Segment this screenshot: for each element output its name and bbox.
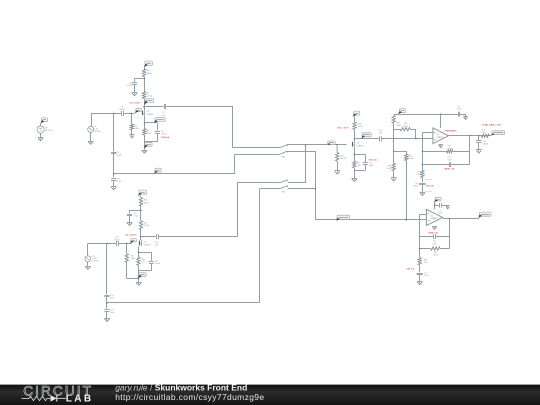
wire Q2 source (138, 246, 139, 257)
flag Sig_Out (491, 131, 505, 136)
wire R24 to ground (337, 161, 339, 171)
wire switch output to U2 (315, 219, 426, 220)
capacitor C4 (441, 106, 466, 117)
resistor R18 (137, 257, 146, 265)
wire R21 to ground (393, 171, 395, 178)
svg-text:4.7 µF: 4.7 µF (127, 85, 133, 87)
flag source-bottom stage1 (144, 142, 152, 149)
ground below stage2 (136, 282, 142, 285)
svg-text:180 Ω: 180 Ω (147, 73, 153, 75)
svg-text:680 pF: 680 pF (483, 143, 488, 145)
svg-text:R11: R11 (418, 171, 421, 173)
red label current C13 (426, 184, 434, 187)
svg-text:1 MΩ: 1 MΩ (131, 258, 136, 260)
svg-text:997 kHz: 997 kHz (94, 131, 100, 133)
wire bias R5 stem (131, 114, 133, 125)
capacitor C10 (111, 178, 121, 183)
ground below stage1 (142, 150, 148, 153)
svg-text:10 µF: 10 µF (110, 298, 114, 300)
capacitor C5 (162, 104, 166, 117)
flag U2 out (478, 212, 491, 218)
resistor R8 (143, 129, 152, 135)
wire U2 inv column (419, 237, 420, 258)
resistor R13 (353, 161, 362, 168)
svg-text:Vds = 4.7 V: Vds = 4.7 V (337, 126, 349, 129)
wire bias R24 stem (336, 145, 338, 153)
wire gate junction down stage2 (106, 244, 108, 295)
capacitor C9 (111, 152, 121, 157)
wire source rejoin stage2 (138, 263, 152, 282)
resistor R21 stem (393, 151, 395, 163)
wire SW2a right (288, 182, 306, 184)
flag VDD stage3 (353, 111, 360, 117)
wire R16 to R17 (140, 206, 141, 221)
wire R14 down (415, 129, 417, 139)
flag gate stage3 (328, 141, 336, 145)
resistor R10 (392, 115, 402, 127)
wire to SW1a contact (233, 147, 279, 149)
ground below V1 (88, 141, 94, 144)
wire node to SW1b corner (114, 173, 235, 175)
wire gate stage2 (88, 243, 132, 244)
wire corner up to SW2b (259, 189, 261, 303)
svg-text:1 kΩ: 1 kΩ (147, 133, 151, 135)
wire U1 feedback right (469, 136, 471, 165)
wire flag to R6 (144, 67, 146, 69)
svg-text:10 µF: 10 µF (110, 312, 114, 314)
wire SW1b riser down (315, 151, 316, 220)
red label Vd stage1 (130, 102, 142, 105)
resistor R23 (420, 247, 450, 257)
svg-text:R16: R16 (144, 200, 147, 202)
svg-text:R7: R7 (147, 93, 151, 95)
resistor R6 (142, 69, 152, 77)
footer url line (115, 392, 264, 402)
wire U1 supply (440, 114, 442, 128)
svg-text:SW1: SW1 (281, 157, 285, 159)
source V3 sine (85, 256, 99, 263)
wire corner down to SW1a (232, 107, 234, 148)
wire to SW2a contact (237, 182, 279, 184)
wire to SW2b contact (260, 188, 280, 190)
wire R22 to U2 input (406, 161, 408, 220)
svg-text:2.2 kΩ: 2.2 kΩ (147, 96, 153, 98)
flag VDD rail (398, 109, 406, 115)
wire source branch right stage2 (138, 252, 151, 261)
ground below C10 (111, 187, 117, 190)
wire to SW1b contact (235, 154, 279, 156)
svg-text:680 pF: 680 pF (413, 186, 418, 188)
wire source branch right (144, 123, 157, 131)
wire source rejoin (144, 133, 157, 149)
wire SW2a riser up (305, 144, 306, 183)
capacitor C15 (420, 234, 450, 246)
wire C2 to ground (419, 275, 421, 281)
wire U1 inverting column (422, 139, 423, 171)
resistor R16 (139, 198, 149, 206)
resistor R11 (416, 170, 424, 177)
red label total gain (482, 124, 502, 127)
wire R17 to drain (140, 230, 142, 241)
resistor R17 (139, 221, 149, 230)
svg-text:1 MΩ: 1 MΩ (135, 128, 140, 130)
wire flag to R16 (140, 196, 142, 198)
svg-text:Vd = 5.40 V: Vd = 5.40 V (125, 233, 137, 236)
node drain stage1 (143, 106, 144, 107)
ground C4 (463, 117, 468, 120)
wire U1 output (449, 135, 492, 136)
svg-text:U2: U2 (431, 215, 433, 217)
wire C12 to ground (129, 216, 131, 222)
wire drain stage2 to C11 (141, 236, 156, 238)
svg-text:2.2 kΩ: 2.2 kΩ (358, 126, 364, 128)
logo diode (51, 395, 66, 401)
wire C13 to ground (422, 185, 424, 192)
svg-text:C13: C13 (415, 183, 418, 185)
node drain stage2 (140, 236, 141, 237)
resistor R7 (142, 92, 152, 99)
svg-text:0.59 mA: 0.59 mA (161, 136, 169, 139)
svg-text:10 µF: 10 µF (433, 244, 437, 246)
ground below C21 (104, 319, 110, 322)
op-amp U1 (433, 128, 449, 144)
wire corner up to SW1b (234, 154, 236, 174)
wire V1 riser (91, 114, 93, 127)
flag mixer node (336, 215, 350, 221)
ground below V3 (85, 266, 91, 269)
svg-text:LSK489: LSK489 (357, 146, 363, 148)
ground below R21 (391, 178, 397, 182)
wire C20 to junction (106, 297, 107, 309)
flag VDD stage1 (144, 61, 153, 67)
wire source branch right stage3 (354, 154, 365, 162)
footer bar (0, 385, 540, 405)
switch SW2b (279, 186, 288, 194)
resistor R21 (387, 163, 396, 170)
resistor R24 (336, 153, 347, 161)
svg-text:0.1 µF: 0.1 µF (438, 213, 442, 215)
capacitor C22 (114, 237, 119, 246)
wire V3 riser (87, 244, 89, 256)
svg-text:0.59 mA: 0.59 mA (369, 158, 377, 161)
svg-text:LAB: LAB (66, 393, 94, 404)
wire R25 to drain (354, 130, 355, 142)
wire U2 supply (434, 202, 435, 210)
svg-text:R23: R23 (434, 252, 437, 254)
wire flag to R25 (354, 117, 356, 122)
wire C19 to ground (478, 143, 480, 150)
svg-text:10 µF: 10 µF (117, 181, 121, 183)
svg-text:180 Ω: 180 Ω (144, 202, 149, 204)
wire drain stage1 to C5 (144, 106, 164, 108)
red label GBW U1 (445, 129, 457, 132)
ground below C8 (132, 93, 138, 96)
svg-text:1 µF: 1 µF (155, 244, 158, 246)
wire C8 to ground (134, 84, 136, 92)
svg-text:10 µF: 10 µF (424, 275, 428, 277)
capacitor C19 (476, 141, 488, 146)
red label current U2 (406, 268, 414, 271)
flag node wire-b (154, 168, 161, 173)
svg-text:1 kΩ: 1 kΩ (424, 262, 428, 264)
resistor R22 (405, 154, 414, 161)
ground U1 (438, 145, 443, 148)
wire Q1 source (144, 116, 145, 129)
wire Q5 drain to C18 (355, 138, 379, 140)
svg-text:C3: C3 (439, 210, 441, 212)
wire U2 output (443, 218, 479, 219)
wire R15 return (127, 262, 139, 278)
wire bias to R22 (394, 151, 407, 154)
resistor R20 (418, 258, 428, 265)
svg-text:GAIN = 18: GAIN = 18 (444, 167, 455, 170)
wire SW1b right (287, 151, 315, 153)
capacitor C21 (104, 309, 114, 314)
ground below C2 (417, 282, 423, 285)
wire V3 to ground (87, 262, 89, 266)
svg-text:1 kΩ: 1 kΩ (482, 132, 486, 134)
wire gate stage3 (306, 144, 347, 145)
wire source rejoin stage3 (354, 165, 365, 178)
svg-text:R17: R17 (144, 223, 147, 225)
transistor Q1 (143, 109, 154, 116)
svg-text:R6: R6 (147, 70, 151, 72)
wire V1 to ground (90, 132, 92, 141)
capacitor C18 (378, 130, 381, 141)
flag gate stage1 (135, 108, 142, 113)
svg-text:GBW=40MHz: GBW=40MHz (445, 129, 457, 132)
svg-text:0.1 µF: 0.1 µF (456, 108, 461, 110)
switch SW2a (279, 180, 288, 183)
op-amp U2 (426, 209, 442, 225)
capacitor C19 stem (478, 136, 480, 141)
wire R20 to C2 (419, 265, 421, 273)
capacitor C13 (413, 183, 425, 188)
red label Vds stage3 (337, 126, 349, 129)
wire SW2b right (288, 188, 316, 190)
svg-text:Q5: Q5 (357, 143, 359, 145)
wire C5 to corner (166, 106, 233, 108)
logo LAB (66, 393, 94, 404)
transistor Q5 (353, 141, 364, 148)
svg-text:Q1: Q1 (147, 111, 149, 113)
flag VDD U2 (434, 197, 441, 202)
svg-text:C21: C21 (110, 309, 113, 311)
flag VDD stage2 (138, 190, 146, 196)
flag drain stage1 (144, 99, 154, 105)
svg-text:996 kHz: 996 kHz (93, 260, 99, 262)
svg-text:SW2: SW2 (281, 192, 285, 194)
svg-text:C14: C14 (448, 157, 451, 159)
ground below R5 (129, 135, 134, 138)
capacitor C14 (422, 157, 469, 167)
resistor R19 (481, 130, 489, 138)
svg-text:LSK489: LSK489 (147, 114, 153, 116)
capacitor C8 (127, 83, 138, 88)
red label current stage1 (161, 136, 169, 139)
svg-text:C2: C2 (424, 273, 426, 275)
svg-text:56 pF: 56 pF (448, 159, 452, 161)
svg-text:TOTAL GAIN = 1017: TOTAL GAIN = 1017 (482, 124, 502, 127)
capacitor C16 (149, 260, 160, 265)
voltage source V2 (37, 126, 53, 133)
wire R10 to main wire (393, 123, 395, 139)
svg-text:100 µF: 100 µF (155, 263, 160, 265)
wire SW1a to gate wire (287, 144, 305, 146)
svg-text:56 kΩ: 56 kΩ (409, 158, 414, 160)
svg-text:C17: C17 (369, 163, 372, 165)
svg-text:7.5 kΩ: 7.5 kΩ (416, 174, 422, 176)
wire U2 inverting (420, 214, 427, 236)
resistor R14 (394, 123, 416, 131)
resistor R5 (130, 124, 139, 130)
wire R5 to ground (131, 130, 133, 135)
svg-text:56 kΩ: 56 kΩ (396, 125, 401, 127)
svg-text:1 µF: 1 µF (162, 115, 165, 117)
capacitor C2 (417, 273, 429, 278)
capacitor C17 (363, 163, 374, 168)
svg-text:C4: C4 (458, 106, 460, 108)
svg-text:LSK489: LSK489 (144, 244, 150, 246)
resistor R12 (422, 146, 469, 153)
red label current stage3 (369, 158, 377, 161)
flag source stage1 (154, 118, 166, 123)
wire U2 feedback right (449, 219, 451, 249)
svg-text:C12: C12 (134, 213, 137, 215)
wire supply rail (394, 113, 442, 114)
svg-text:1 µF: 1 µF (378, 133, 381, 135)
red label gain U1 (444, 167, 455, 170)
flag VDD on V2 (40, 118, 47, 124)
svg-text:C15: C15 (433, 241, 436, 243)
source V1 sine (88, 126, 101, 133)
ground below C19 (476, 150, 482, 154)
wire main to bias junction (393, 139, 394, 152)
svg-text:4.7 µF: 4.7 µF (134, 216, 139, 218)
wire C18 to opamp (382, 138, 422, 139)
svg-text:100 µF: 100 µF (369, 165, 374, 167)
svg-text:C16: C16 (155, 260, 158, 262)
flag source-bottom stage2 (138, 272, 146, 278)
ground below C13 (420, 193, 426, 196)
svg-text:220 pF: 220 pF (119, 109, 125, 111)
logo resistor zigzag (22, 396, 51, 400)
flag drain stage3 (361, 133, 371, 139)
ground below V2 (38, 138, 44, 141)
svg-text:1 kΩ: 1 kΩ (141, 262, 145, 264)
wire drain branch left (135, 79, 145, 82)
wire Q5 source (354, 148, 355, 162)
capacitor C11 (155, 234, 159, 246)
capacitor C20 (104, 295, 114, 300)
svg-text:U1: U1 (437, 134, 439, 136)
svg-text:C20: C20 (110, 295, 113, 297)
resistor R15 (125, 254, 135, 262)
capacitor C3 (435, 203, 448, 215)
wire C9 to junction (113, 154, 114, 178)
flag gate stage2 (130, 239, 137, 244)
wire C21 to ground (106, 311, 108, 318)
wire gate junction down (113, 114, 115, 152)
ground below R24 (334, 171, 340, 175)
wire U1 plus jog (422, 133, 433, 139)
wire V2 top (40, 123, 42, 126)
gray tick above C13 (425, 179, 433, 181)
svg-text:220 pF: 220 pF (114, 239, 119, 241)
wire bias R15 stem (126, 244, 128, 254)
wire C10 to ground (113, 180, 115, 186)
ground below stage3 (352, 179, 358, 182)
red label gain U2 (428, 232, 438, 235)
wire C11 to corner (159, 236, 238, 238)
capacitor C12 (127, 213, 138, 217)
svg-text:100 kΩ: 100 kΩ (340, 158, 346, 160)
wire V2 to ground (40, 133, 42, 137)
wire drain branch left stage2 (130, 210, 142, 213)
svg-text:http://circuitlab.com/csyy77du: http://circuitlab.com/csyy77dumzg9e (115, 392, 264, 402)
svg-text:DC 9.5 V: DC 9.5 V (45, 130, 53, 132)
ground U2 (432, 227, 437, 230)
wire node to SW2b corner (107, 302, 260, 304)
svg-text:R24: R24 (340, 155, 343, 157)
transistor Q2 (140, 240, 151, 247)
svg-text:100 µF: 100 µF (161, 134, 166, 136)
red label Vd stage2 (125, 233, 137, 236)
wire R7 to drain (144, 99, 146, 111)
capacitor C6 (155, 131, 167, 136)
svg-text:2.2 kΩ: 2.2 kΩ (144, 225, 150, 227)
svg-text:Vd = 5.40 V: Vd = 5.40 V (130, 102, 142, 105)
wire R11 to C13 (422, 178, 424, 183)
svg-text:0.59 mA: 0.59 mA (406, 268, 414, 271)
wire gate stage1 (91, 113, 134, 114)
footer title line (115, 383, 247, 393)
svg-text:10 µF: 10 µF (117, 155, 121, 157)
svg-text:1 kΩ: 1 kΩ (357, 165, 361, 167)
gray tick below C13 (425, 191, 433, 193)
resistor R25 (353, 122, 363, 130)
svg-text:Q2: Q2 (144, 241, 146, 243)
wire R6 to R7 (143, 77, 144, 92)
svg-text:R20: R20 (424, 259, 427, 261)
svg-text:56 kΩ: 56 kΩ (433, 255, 438, 257)
wire corner up to SW2a (237, 183, 239, 237)
svg-text:C19: C19 (483, 141, 486, 143)
svg-text:0.59 mA: 0.59 mA (426, 184, 434, 187)
capacitor C7 (119, 107, 125, 117)
ground below C12 (127, 223, 133, 226)
svg-text:56 kΩ: 56 kΩ (403, 126, 408, 128)
ground C3 (446, 206, 450, 209)
switch SW1b (279, 151, 287, 159)
CircuitLab logo CIRCUIT (23, 383, 93, 398)
switch SW1a (279, 145, 287, 148)
svg-text:56 kΩ: 56 kΩ (387, 168, 392, 170)
svg-text:4.7 kΩ: 4.7 kΩ (448, 148, 454, 150)
